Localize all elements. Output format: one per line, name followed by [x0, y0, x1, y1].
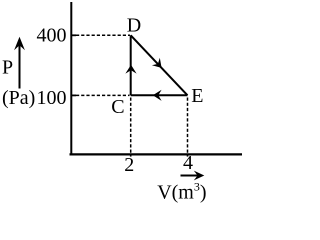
svg-text:D: D [127, 15, 141, 37]
V axis direction arrowhead [194, 171, 205, 181]
tick 400 on y-axis [71, 34, 76, 36]
svg-text:4: 4 [183, 152, 193, 174]
process line C to D (isochoric) [130, 35, 132, 95]
svg-text:(Pa): (Pa) [2, 87, 35, 109]
y-axis (P axis) [70, 2, 72, 156]
dashed line from E down to V=4 [187, 98, 189, 154]
arrowhead up on C-D line [125, 65, 136, 74]
dashed line from C down to V=2 [130, 98, 132, 154]
dashed line 100 level to C [76, 94, 130, 96]
x-axis (V axis) [70, 153, 243, 155]
process line E to C (isobaric) [131, 94, 188, 96]
svg-text:E: E [191, 85, 203, 107]
dashed line 400 level to D [76, 34, 130, 36]
svg-text:2: 2 [124, 154, 134, 176]
process line D to E [131, 35, 188, 95]
P axis direction arrow shaft [19, 41, 21, 89]
svg-text:P: P [2, 57, 13, 79]
arrowhead down-right on D-E line [152, 58, 162, 68]
tick 100 on y-axis [71, 94, 76, 96]
tick 2 on x-axis [130, 154, 132, 157]
V axis direction arrow shaft [181, 175, 199, 177]
svg-text:C: C [111, 96, 124, 118]
svg-text:100: 100 [37, 87, 67, 109]
tick 4 on x-axis [187, 154, 189, 157]
P axis direction arrowhead [14, 37, 25, 50]
svg-text:V(m3): V(m3) [157, 180, 206, 204]
svg-text:400: 400 [37, 25, 67, 47]
arrowhead left on E-C line [153, 90, 162, 101]
